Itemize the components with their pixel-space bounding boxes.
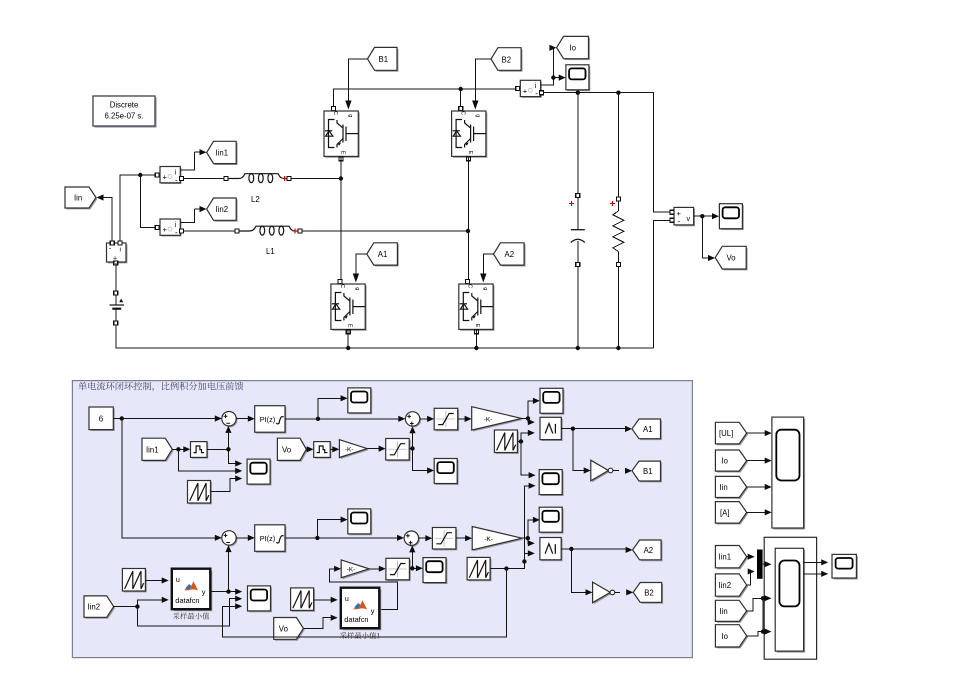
svg-text:Discrete: Discrete <box>110 101 139 110</box>
svg-text:6.25e-07 s.: 6.25e-07 s. <box>104 112 143 121</box>
wire ZOH1 to sum1 minus input <box>207 426 232 452</box>
wire VM output to scope and Vo tag <box>694 213 719 261</box>
from tag Io (bottom right) <box>715 625 748 649</box>
svg-text:Vo: Vo <box>727 254 737 263</box>
svg-text:i: i <box>120 247 121 254</box>
display block <box>832 554 858 579</box>
saturation4 <box>386 558 411 581</box>
gain1 -K- <box>339 440 368 459</box>
wire gain4 to saturation4 <box>369 566 386 572</box>
svg-text:L2: L2 <box>251 195 260 204</box>
from tag A1 <box>367 243 399 267</box>
wire A1 tag to IGBT3 gate <box>353 254 367 283</box>
sum junction sum3 <box>405 412 421 428</box>
logical NOT1 <box>591 460 613 482</box>
MATLAB function fcn2 采样最小值1 <box>340 588 382 639</box>
wire L1 to phase leg A (crosses leg B line) <box>302 230 468 232</box>
wire fcn1 y output to scope5 and sum2 <box>210 545 242 595</box>
wire battery negative to ground bus <box>116 325 654 348</box>
current measurement CM2 (Iin2) <box>155 219 183 237</box>
wire saturation3 to gain3 <box>456 535 472 541</box>
svg-text:Vo: Vo <box>282 445 292 454</box>
from tag Iin1 (bottom right) <box>715 546 748 570</box>
node distribution junction <box>138 173 142 177</box>
wire leg A midpoint <box>466 157 470 282</box>
wire distribution node down to Iin2 measurement <box>140 175 157 228</box>
gain4 -K- (min sample feedforward) <box>341 560 370 579</box>
wire ZOH2 to gain1 <box>330 446 339 452</box>
wire Io to inner scope input 3 joined with Iin branch <box>747 598 772 636</box>
scope3 <box>540 388 564 414</box>
svg-text:Iin: Iin <box>74 194 82 203</box>
wire capacitor branch top <box>569 93 580 230</box>
svg-text:B2: B2 <box>644 589 654 598</box>
wire ZOH1 junction branch to scope input 1 <box>228 449 242 466</box>
wire NOT2 to B2 tag <box>615 589 633 595</box>
wire Vo to ZOH2 <box>306 446 313 452</box>
sum junction sum1 <box>222 412 238 428</box>
zero-order hold ZOH1 <box>191 442 209 459</box>
repeating sequence saw1 <box>188 481 212 505</box>
wire A2 tag to IGBT4 gate <box>480 254 493 283</box>
discrete PI controller PI(z)1 <box>255 525 287 553</box>
from tag B2 <box>491 48 523 72</box>
svg-text:A2: A2 <box>505 250 515 259</box>
wire constant to sum1 <box>113 415 222 421</box>
svg-text:B1: B1 <box>643 467 653 476</box>
current measurement CM_in (rotated) <box>107 241 128 265</box>
wire Iin1 to ZOH1 <box>172 446 190 452</box>
wire PI(z) output to sum3 with scope branch <box>285 395 405 422</box>
goto tag Io <box>557 36 590 60</box>
wire gain2 to relational operator and scope3 <box>522 398 540 426</box>
svg-text:A1: A1 <box>378 250 388 259</box>
wire saw4 to fcn1 u input <box>145 577 168 583</box>
svg-text:Io: Io <box>722 457 729 466</box>
wire NOT1 to B1 tag <box>613 468 632 474</box>
wire Iin tag from input current measurement i output <box>103 198 112 242</box>
annotation Discrete 6.25e-07 s. <box>93 96 157 128</box>
gain3 -K- <box>472 527 523 552</box>
svg-text:B1: B1 <box>379 55 389 64</box>
goto tag A2 (control) <box>633 540 663 561</box>
scope l1 <box>348 509 372 535</box>
scope5 (3 inputs bottom) <box>248 586 272 612</box>
scope m2 <box>434 459 458 485</box>
wire PI(z)1 output to sum4 with scope branch <box>285 517 404 541</box>
svg-text:6: 6 <box>99 415 104 424</box>
wire saw2 to GE1 second input <box>517 430 534 444</box>
wire Iin to tall scope <box>747 484 772 490</box>
voltage measurement VM <box>670 207 695 226</box>
wire Iin1 to mux <box>747 554 755 560</box>
from tag Iin (right) <box>715 476 748 499</box>
repeating sequence saw2 (carrier 1) <box>494 430 518 454</box>
saturation3 <box>432 528 457 551</box>
svg-text:Iin1: Iin1 <box>146 445 159 454</box>
svg-text:v: v <box>687 216 691 223</box>
inductor L2 <box>224 174 291 204</box>
wire mux to subsystem scope <box>763 561 772 567</box>
MATLAB function fcn1 采样最小值 <box>172 569 213 620</box>
wire GE1 output to A1 tag <box>561 426 632 432</box>
svg-text:Iin: Iin <box>720 483 728 492</box>
relational operator GE2 <box>540 538 563 562</box>
goto tag B1 (control) <box>632 461 662 482</box>
svg-text:Iin: Iin <box>720 607 728 616</box>
wire CM_io i output to Io tag and scope <box>541 45 566 85</box>
from tag [UL] <box>715 422 748 445</box>
mux block <box>757 550 763 579</box>
goto tag Iin <box>65 187 104 209</box>
scope m1 (3 inputs) <box>247 459 271 485</box>
scope Io <box>566 65 590 91</box>
wire GE2 branch to NOT2 <box>571 549 592 596</box>
repeating sequence saw4 <box>122 569 146 593</box>
wire GE1 branch to NOT1 <box>573 429 591 474</box>
DC voltage source battery <box>110 291 125 325</box>
from tag Iin2 (control) <box>84 596 115 619</box>
scope2 <box>348 388 372 414</box>
current measurement CM_io output <box>516 80 544 98</box>
wire L2 to phase leg B <box>291 178 341 180</box>
wire Iin2 branch to scope5 input 2 <box>137 596 242 626</box>
goto tag A1 (control) <box>632 419 662 440</box>
wire CM2 i output to Iin2 tag <box>181 206 207 223</box>
wire inner scope outputs to display <box>804 559 829 577</box>
wire CM1 i output to Iin1 tag <box>181 149 207 170</box>
scope6 <box>539 507 563 533</box>
wire Iin to inner scope input 2 <box>747 595 772 611</box>
goto tag B2 (control) <box>633 583 663 604</box>
wire [A] to tall scope <box>747 509 772 515</box>
wire IGBT4 emitter to bus <box>474 330 478 351</box>
wire Iin2 to fcn1 second input <box>114 597 169 609</box>
zero-order hold ZOH2 <box>314 442 332 459</box>
wire Iin2 to mux <box>747 568 755 585</box>
wire CM2 output to inductor L1 <box>184 230 238 232</box>
wire resistor branch bottom <box>616 252 620 351</box>
from tag Iin1 (control) <box>142 438 174 462</box>
svg-text:[UL]: [UL] <box>719 429 733 438</box>
current measurement CM1 (Iin1) <box>155 167 183 185</box>
control region background panel <box>72 381 692 658</box>
wire IGBT3 emitter to bus <box>346 330 350 351</box>
scope4 (carrier compare) <box>539 470 563 496</box>
from tag B1 <box>368 47 399 71</box>
wire saw2 branch to scope4 input 1 <box>521 441 536 478</box>
svg-text:B2: B2 <box>502 55 512 64</box>
from tag Vo (control upper) <box>277 438 307 462</box>
from tag A2 <box>494 243 526 267</box>
wire measurement to DC source <box>115 263 117 305</box>
constant 6 <box>89 407 115 431</box>
inductor L1 <box>235 226 302 256</box>
wire saturation2 to sum3 plus input <box>409 426 415 450</box>
svg-text:Iin2: Iin2 <box>88 603 101 612</box>
from tag [A] <box>715 502 748 525</box>
wire fcn2 y output loop to gain4 input <box>329 566 397 610</box>
wire sum4 to saturation3 <box>419 535 433 541</box>
control region title 单电流环闭环控制，比例积分加电压前馈 <box>78 382 243 392</box>
wire leg B midpoint <box>339 157 343 282</box>
from tag Iin2 (bottom right) <box>715 574 748 598</box>
from tag Vo (control lower) <box>274 618 305 641</box>
svg-text:L1: L1 <box>266 247 275 256</box>
sum junction sum2 <box>222 531 238 547</box>
discrete PI controller PI(z) <box>255 406 287 434</box>
svg-text:Iin2: Iin2 <box>216 205 229 214</box>
saturation1 <box>434 408 459 431</box>
wire Vo to fcn2 second input <box>303 615 337 629</box>
svg-text:A1: A1 <box>643 425 653 434</box>
wire [UL] to tall scope <box>747 430 772 436</box>
tall scope block <box>772 417 805 529</box>
scope7 <box>423 558 447 584</box>
capacitor C <box>571 230 585 243</box>
relational operator GE1 <box>540 417 563 441</box>
wire capacitor branch bottom <box>576 241 580 350</box>
repeating sequence saw3 (carrier 2) <box>467 557 491 581</box>
IGBT2 upper leg A <box>452 107 488 161</box>
svg-text:[A]: [A] <box>720 508 730 517</box>
IGBT3 lower leg B <box>331 280 367 334</box>
from tag Io (right) <box>715 450 748 473</box>
wire B1 tag to IGBT1 gate <box>345 59 367 110</box>
wire Io to tall scope <box>747 458 772 464</box>
svg-text:Iin2: Iin2 <box>719 581 732 590</box>
resistor R load <box>613 211 624 252</box>
wire Iin1 branch to scope input 2 <box>178 449 242 474</box>
goto tag Iin1 <box>207 141 238 165</box>
wire resistor branch top <box>610 93 620 211</box>
outer frame subsystem <box>764 537 816 659</box>
wire sum3 to saturation1 <box>420 416 434 422</box>
wire saw3 long loop to scope5 input 3 <box>222 569 506 638</box>
wire gain1 to saturation2 <box>367 446 385 452</box>
saturation2 <box>386 439 411 462</box>
IGBT4 lower leg A <box>459 280 495 334</box>
sum junction sum4 <box>404 531 420 547</box>
wire B2 tag to IGBT2 gate <box>472 59 491 110</box>
wire saw5 to fcn2 u input <box>314 597 338 603</box>
svg-text:Iin1: Iin1 <box>216 149 229 158</box>
wire saw3 to GE2 second input and scope4 input 2 <box>490 483 535 571</box>
wire saw1 to scope input 3 <box>211 475 243 491</box>
gain2 -K- <box>472 407 523 432</box>
wire gain3 to GE2 and scope6 <box>522 517 540 547</box>
wire GE2 output to A2 tag <box>561 547 632 553</box>
svg-text:Vo: Vo <box>279 624 289 633</box>
svg-text:Io: Io <box>722 632 729 641</box>
svg-text:Io: Io <box>570 44 577 53</box>
wire sum2 to PI(z)1 <box>236 535 255 541</box>
wire saturation4 to sum4 plus input and scope7 <box>409 545 423 571</box>
inner scope block (3 inputs) <box>775 548 805 652</box>
goto tag Iin2 <box>207 198 238 222</box>
IGBT1 upper leg B <box>324 107 360 161</box>
repeating sequence saw5 <box>291 588 315 612</box>
svg-text:A2: A2 <box>644 546 654 555</box>
wire output dc bus <box>543 91 669 212</box>
goto tag Vo <box>715 246 747 270</box>
from tag Iin (bottom right) <box>715 600 748 623</box>
logical NOT2 <box>593 582 615 604</box>
scope Vo <box>719 204 743 230</box>
svg-text:-: - <box>678 217 681 226</box>
wire v-meter negative return <box>653 220 669 348</box>
wire constant branch down to sum2 <box>122 419 222 541</box>
wire saturation2 junction to scope m2 <box>413 449 435 474</box>
wire CM1 output to inductor L2 <box>184 178 227 180</box>
wire saturation1 to gain2 <box>458 416 472 422</box>
wire sum1 to PI(z) <box>236 416 255 422</box>
wire input measurement + terminal to distribution node <box>120 175 157 242</box>
wire top dc bus <box>333 87 518 107</box>
svg-text:Iin1: Iin1 <box>719 553 732 562</box>
